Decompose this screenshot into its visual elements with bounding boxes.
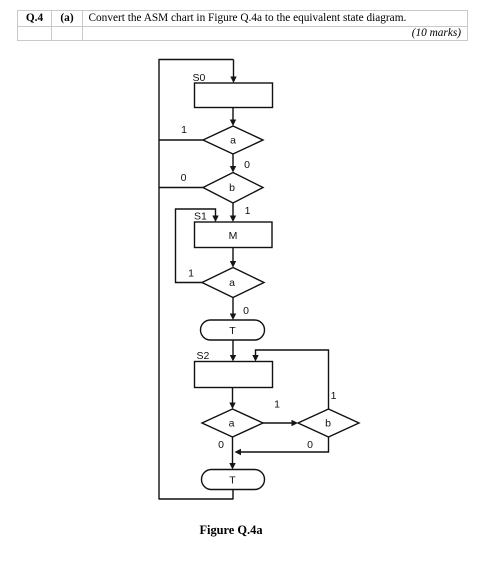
decision a2 [202,268,264,298]
arrowhead into T2 [229,463,235,470]
svg-text:a: a [230,135,236,147]
arrowhead into M from S1 feedback [212,216,218,223]
wire b1 0-branch to left rail [159,187,203,189]
wire left vertical of outer loop [158,60,160,500]
wire S1 feedback from a2 [176,209,216,283]
wire bottom horizontal of outer loop [159,498,234,500]
wire b2 0-branch merge [240,437,329,452]
svg-text:1: 1 [245,205,251,217]
wire a3 1-branch to b2 [263,422,293,424]
svg-text:b: b [229,182,235,194]
svg-text:S0: S0 [193,72,206,84]
svg-text:0: 0 [307,439,313,451]
svg-text:b: b [325,418,331,430]
svg-text:0: 0 [218,439,224,451]
figure caption [0,523,462,538]
conditional output box T2 [202,470,265,490]
svg-text:M: M [229,230,238,242]
wire a1 to decision b1 [232,154,234,167]
wire M to decision a2 [232,248,234,263]
svg-text:a: a [229,418,235,430]
svg-text:1: 1 [181,124,187,136]
wire a1 1-branch to left rail [159,139,203,141]
arrowhead into b2 from a3 [292,420,299,426]
state box M (S1) [195,222,273,248]
arrowhead into S2 from T1 [230,355,236,362]
question header table [17,10,468,41]
arrowhead on merge pointing left [235,449,242,455]
svg-text:1: 1 [188,268,194,280]
svg-text:S1: S1 [194,211,207,223]
arrowhead into a2 [230,261,236,268]
svg-text:S2: S2 [197,350,210,362]
svg-text:T: T [229,475,236,487]
svg-text:1: 1 [274,399,280,411]
arrowhead into b1 [230,166,236,173]
wire top horizontal of outer loop [159,59,234,61]
wire S2 feedback from b2 [256,350,329,409]
svg-text:0: 0 [243,305,249,317]
svg-text:0: 0 [244,159,250,171]
arrowhead into S2 from b2 feedback [252,355,258,362]
wire S2 to decision a3 [232,388,234,405]
svg-text:a: a [229,277,235,289]
wire from T2 bottom down [232,490,234,500]
wire a2 to T1 [232,298,234,316]
svg-text:T: T [229,325,236,337]
decision b1 [203,173,263,204]
arrowhead into M from b1 [230,216,236,223]
svg-text:0: 0 [181,172,187,184]
state box S2 [195,362,273,388]
wire S0 to decision a1 [232,108,234,122]
decision a3 [202,409,263,437]
decision b2 [298,409,359,437]
arrowhead into S0 [230,77,236,84]
arrowhead into T1 [230,314,236,321]
wire T1 to state box S2 [232,340,234,357]
wire into S0 top [233,60,235,79]
wire a3 0-branch to T2 [232,437,234,464]
state box S0 [195,83,273,108]
wire b1 to state box M [232,203,234,217]
arrowhead into a1 [230,120,236,127]
decision a1 [203,126,263,154]
svg-text:1: 1 [331,390,337,402]
conditional output box T1 [201,320,265,340]
arrowhead into a3 [229,403,235,410]
